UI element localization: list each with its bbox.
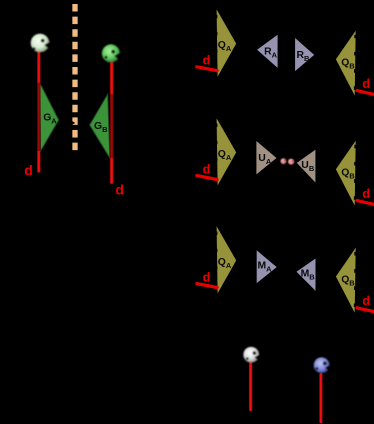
d marker row3 A: [197, 270, 217, 287]
analyzer R_B: [295, 38, 314, 71]
shading of pole A behind analyzer: [37, 83, 40, 151]
svg-text:d: d: [362, 77, 370, 91]
svg-text:d: d: [24, 162, 33, 178]
pole B (red): [110, 61, 114, 184]
pole bottom A (red): [249, 362, 252, 411]
analyzer M_A: [257, 250, 277, 283]
particle bottom B (blue sphere): [314, 357, 330, 373]
analyzer Q_A row3: [216, 226, 236, 294]
d marker row3 B: [357, 294, 374, 312]
analyzer R_A: [257, 35, 278, 68]
shading of pole B behind analyzer: [110, 94, 114, 158]
svg-text:d: d: [203, 270, 211, 284]
photon pair (pink balls): [281, 158, 295, 164]
pole bottom B (red): [319, 373, 322, 423]
notch in dash: [72, 121, 76, 125]
svg-text:d: d: [115, 182, 124, 198]
analyzer Q_B row1: [336, 30, 356, 96]
analyzer Q_A row1: [216, 9, 236, 77]
particle B (green sphere): [102, 44, 120, 62]
svg-text:d: d: [362, 294, 370, 308]
d marker row1 A: [197, 54, 217, 71]
svg-text:d: d: [203, 162, 211, 176]
analyzer Q_A row2: [216, 118, 236, 186]
gravity analyzer G_B: [90, 94, 110, 158]
analyzer U_B: [297, 150, 316, 183]
svg-text:d: d: [203, 54, 211, 68]
d marker row2 B: [357, 187, 374, 205]
dashed separator line epsilon: [72, 4, 77, 151]
particle A (pale sphere): [31, 34, 51, 53]
analyzer M_B: [297, 259, 316, 291]
svg-text:d: d: [362, 187, 370, 201]
pole A (red): [37, 52, 40, 173]
d marker row1 B: [357, 77, 374, 95]
d marker row2 A: [197, 162, 217, 179]
particle bottom A (white sphere): [243, 347, 259, 363]
analyzer U_A: [256, 141, 276, 174]
gravity analyzer G_A: [40, 83, 59, 151]
analyzer Q_B row3: [336, 247, 356, 313]
analyzer Q_B row2: [336, 140, 356, 206]
